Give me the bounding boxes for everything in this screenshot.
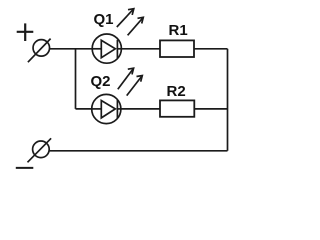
- svg-text:R1: R1: [169, 22, 188, 39]
- resistor R2: [160, 100, 194, 116]
- wire: Q1 to R1: [121, 48, 160, 50]
- resistor R1: [160, 40, 194, 57]
- wire: + terminal to Q1: [50, 48, 93, 50]
- wire: R1 to right rail: [194, 48, 228, 50]
- wire: right rail vertical: [227, 49, 229, 151]
- LED Q2: [92, 68, 143, 123]
- svg-text:R2: R2: [167, 83, 186, 100]
- svg-text:Q1: Q1: [94, 11, 114, 28]
- wire: branch to Q2: [76, 108, 92, 110]
- wire: R2 to right rail: [194, 108, 228, 110]
- minus sign (-): [16, 167, 34, 169]
- terminal (+): [28, 39, 51, 63]
- wire: Q2 to R2: [121, 108, 160, 110]
- svg-text:Q2: Q2: [91, 73, 111, 90]
- wire: bottom return: [49, 150, 227, 152]
- wire: vertical branch: [75, 49, 77, 109]
- terminal (-): [28, 138, 52, 162]
- plus sign (+): [17, 23, 34, 41]
- LED Q1: [92, 9, 143, 64]
